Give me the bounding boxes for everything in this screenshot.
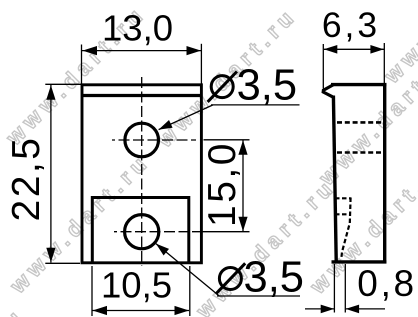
svg-text:13,0: 13,0	[102, 8, 173, 49]
svg-text:10,5: 10,5	[101, 264, 172, 305]
dim 10,5 right extension line	[189, 266, 191, 316]
hole H1 horizontal centerline	[112, 139, 196, 141]
dim 0,8 left dimension line	[305, 308, 334, 310]
dim 15,0 dimension line	[242, 140, 244, 231]
watermark tile A	[0, 0, 150, 150]
dim 13,0 left extension line	[81, 45, 83, 84]
front view outer outline	[82, 85, 201, 263]
dim 0,8 left arrowhead (points right)	[321, 305, 335, 314]
side view tab hidden upper segment	[335, 197, 351, 199]
watermark tile G	[304, 149, 418, 299]
dim 10,5 dimension line	[93, 310, 190, 312]
side view tab hidden lower segment	[335, 213, 351, 215]
hole label D3,5 upper leader arrowhead	[159, 120, 173, 130]
dim 13,0 dimension line	[82, 50, 201, 52]
side view tab hidden slant line	[341, 198, 350, 260]
svg-text:3,5: 3,5	[237, 62, 297, 110]
watermark tile BC	[4, 148, 154, 298]
dim 10,5 left arrowhead	[93, 306, 108, 315]
hole H2 horizontal centerline	[114, 231, 192, 233]
svg-text:0,8: 0,8	[357, 263, 417, 304]
side view left edge	[333, 96, 336, 261]
hole label D3,5 lower diameter symbol	[219, 268, 241, 290]
watermark tile H (corner fragment)	[0, 302, 30, 317]
side view hidden line 1	[337, 121, 383, 124]
dim 6,3 left extension line	[322, 44, 324, 89]
svg-text:15,0: 15,0	[201, 141, 244, 227]
watermark tile F	[190, 173, 340, 317]
svg-text:6,3: 6,3	[322, 5, 380, 45]
side view bottom edge	[332, 260, 387, 263]
dim 6,3 right arrowhead	[370, 45, 384, 54]
hole label D3,5 upper diameter symbol	[211, 76, 233, 98]
dim 15,0 text	[201, 141, 244, 227]
dim 22,5 top extension line	[45, 83, 81, 85]
hole label D3,5 upper leader line	[159, 105, 213, 130]
dim 0,8 left extension line	[333, 264, 335, 313]
dim 0,8 right extension line	[344, 264, 346, 313]
vertical centerline	[141, 77, 143, 266]
dim 6,3 right extension line	[383, 43, 385, 83]
watermark tile D	[151, 2, 301, 152]
dim 22,5 text	[5, 136, 48, 222]
dim 0,8 right arrowhead (points left)	[346, 305, 360, 314]
dim 15,0 lower extension line	[192, 231, 250, 233]
hole label D3,5 lower leader arrowhead	[156, 244, 169, 256]
svg-text:3,5: 3,5	[244, 254, 304, 302]
hole label D3,5 upper shelf	[211, 104, 300, 106]
svg-text:www.dart.ru: www.dart.ru	[0, 302, 30, 317]
front view flange line	[82, 94, 201, 97]
watermark tile E	[313, 40, 418, 190]
dim 10,5 right arrowhead	[175, 306, 190, 315]
dim 6,3 dimension line	[324, 48, 384, 50]
side view right edge	[383, 83, 386, 264]
dim 15,0 upper extension line	[204, 139, 250, 141]
dim 13,0 right extension line	[200, 44, 202, 84]
dim 10,5 left extension line	[91, 266, 93, 316]
dim 15,0 top arrowhead	[238, 140, 247, 155]
watermark tile I (top-right fragment)	[378, 0, 418, 89]
dim 13,0 left arrowhead	[83, 46, 98, 55]
side view hook beak	[323, 85, 334, 98]
front view inner step rectangle	[92, 198, 189, 263]
side view top edge	[331, 83, 386, 86]
dim 13,0 right arrowhead	[187, 46, 202, 55]
dim 22,5 bottom extension line	[45, 262, 80, 264]
dim 22,5 bottom arrowhead	[46, 248, 55, 262]
hole H2 circle	[125, 215, 159, 249]
dim 0,8 right dimension line	[346, 308, 385, 310]
hole label D3,5 lower leader line	[156, 244, 219, 296]
svg-text:22,5: 22,5	[5, 136, 48, 222]
dim 22,5 dimension line	[50, 85, 52, 263]
dim 22,5 top arrowhead	[46, 85, 55, 100]
dim 15,0 bottom arrowhead	[238, 217, 247, 232]
side view hidden line 2	[337, 151, 383, 154]
hole label D3,5 lower shelf	[217, 295, 300, 297]
hole H1 circle	[125, 123, 159, 157]
dim 6,3 left arrowhead	[324, 45, 338, 54]
